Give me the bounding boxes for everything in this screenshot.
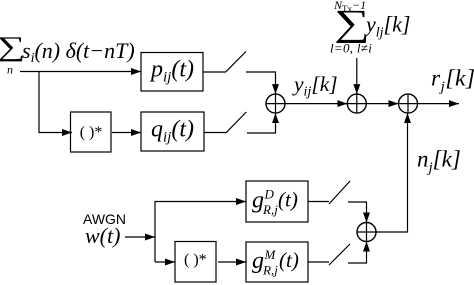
wire gD out [308,201,329,203]
svg-text:n: n [7,63,13,77]
wire awgn to conj2 [155,261,175,263]
sampler slash p [225,52,246,73]
wire gM out [308,261,329,263]
adder A4 [357,223,376,242]
svg-text:( )*: ( )* [184,252,207,269]
adder A3 [399,94,418,113]
conjugate box top ( )* [71,112,112,152]
filter gM [246,242,308,282]
svg-text:( )*: ( )* [80,124,103,141]
svg-text:ylj[k]: ylj[k] [364,12,410,41]
wire conj2 to gM [218,261,246,263]
adder A2 [347,94,366,113]
svg-text:R,j: R,j [262,202,278,217]
filter p_ij [141,53,203,92]
svg-text:w(t): w(t) [85,223,120,248]
wire p to adder1 [246,72,276,94]
svg-text:qij(t): qij(t) [151,117,194,146]
wire w(t) input [125,236,155,238]
wire branch down [39,72,72,133]
wire conj to q [112,132,141,134]
wire gD to adder4 [348,202,367,223]
svg-text:∑: ∑ [334,2,370,43]
sampler slash gD [329,181,350,204]
sampler slash q [226,112,247,133]
svg-text:pij(t): pij(t) [149,57,194,86]
label input sum [0,32,135,77]
svg-text:l=0, l≠i: l=0, l≠i [330,41,372,56]
wire output r_j [418,103,460,105]
svg-text:(t): (t) [279,248,299,272]
sampler slash gM [329,244,350,265]
svg-text:R,j: R,j [262,263,278,278]
svg-text:(t): (t) [278,188,298,212]
wire adder1 to adder2 [285,103,347,105]
adder A1 [266,94,285,113]
svg-text:si(n) δ(t−nT): si(n) δ(t−nT) [22,38,135,66]
wire awgn junction [155,202,246,263]
wire interference sum into adder2 [356,58,358,94]
filter gD [246,181,308,222]
svg-text:yij[k]: yij[k] [292,72,338,100]
wire noise vertical n_j [376,113,408,232]
svg-text:M: M [264,247,277,262]
conjugate box bottom ( )* [175,242,216,283]
svg-text:nj[k]: nj[k] [417,147,461,177]
wire gM to adder4 [348,242,367,264]
label gD [252,187,298,218]
svg-text:rj[k]: rj[k] [431,66,474,96]
label interference sum [330,0,410,56]
svg-text:D: D [264,187,275,202]
wire p out [203,71,225,73]
wire input main horizontal [20,71,141,73]
wire adder2 to adder3 [366,103,398,105]
label gM [252,247,299,278]
wire q to adder1 [247,113,276,133]
filter q_ij [141,112,204,151]
wire q out [204,132,226,134]
